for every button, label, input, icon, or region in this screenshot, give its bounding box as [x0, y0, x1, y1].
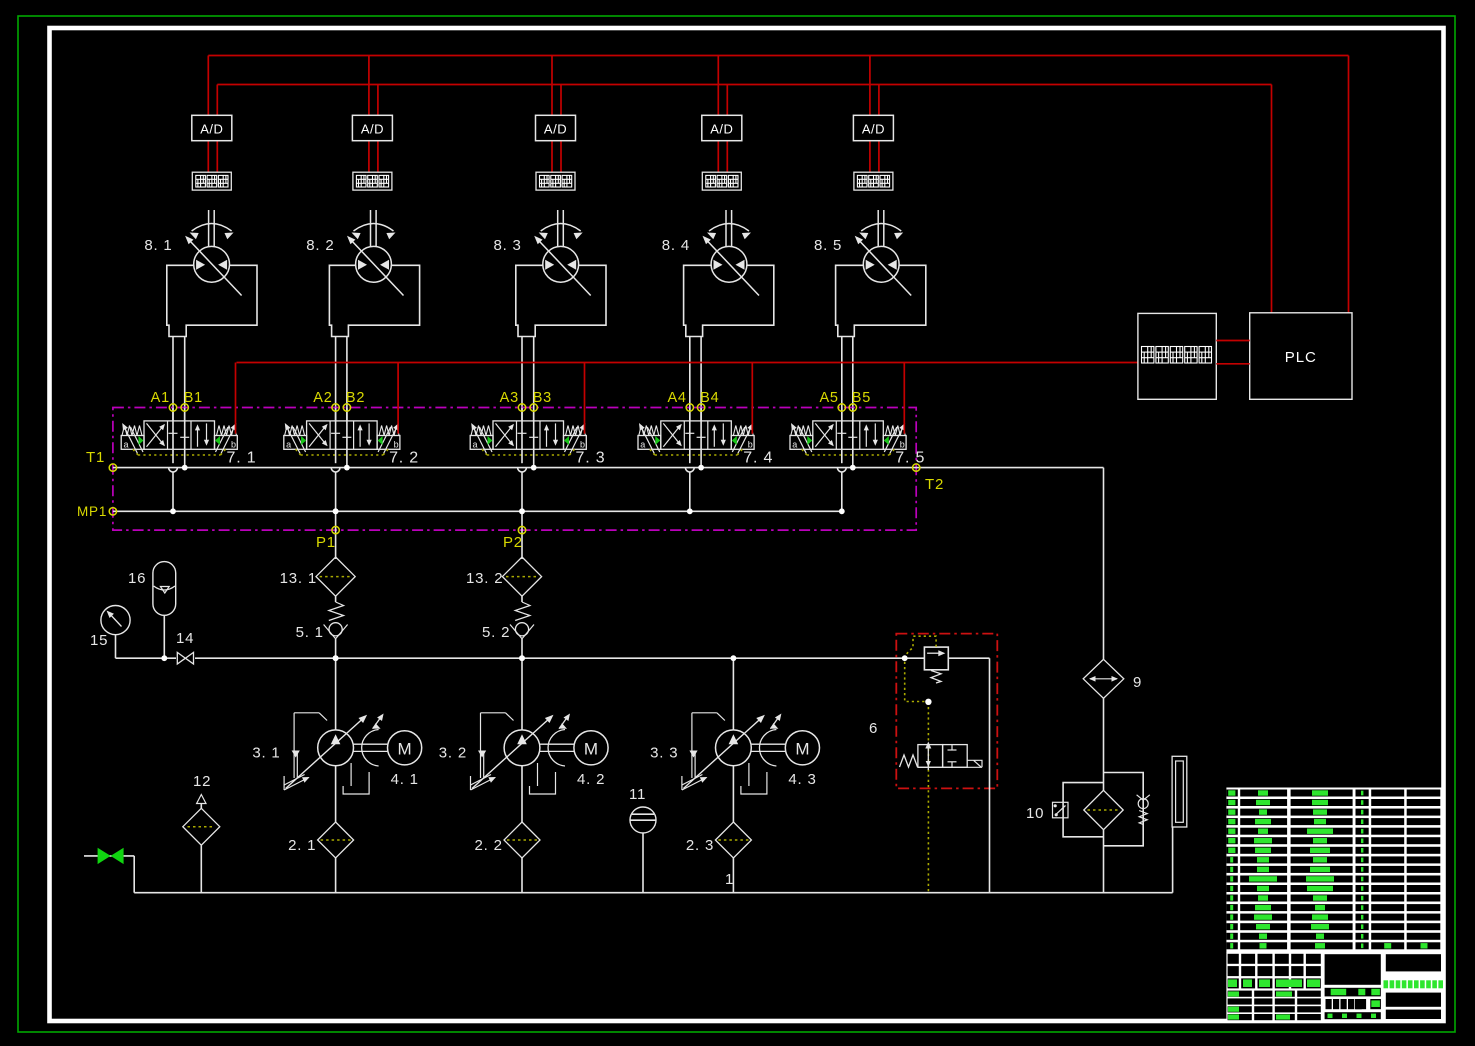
air filter 12	[183, 773, 220, 893]
svg-text:15: 15	[90, 632, 108, 649]
svg-text:MP1: MP1	[77, 504, 107, 519]
wire: T2 line to cooler	[853, 468, 1104, 660]
return filter 10 with bypass	[1026, 698, 1150, 892]
svg-text:16: 16	[128, 570, 146, 587]
junction: pilot tap	[902, 655, 908, 661]
proportional valve 7.1	[121, 421, 256, 467]
wire: valve 7.5 P drop to MP1	[837, 449, 846, 514]
node B3	[530, 390, 552, 421]
svg-text:8. 5: 8. 5	[814, 237, 842, 254]
wire: supply to relief and down-leg	[989, 658, 991, 893]
electric motor 4.1	[354, 714, 422, 789]
svg-text:b: b	[394, 439, 399, 449]
svg-text:A/D: A/D	[361, 122, 384, 137]
svg-text:12: 12	[193, 773, 211, 790]
svg-text:4. 2: 4. 2	[577, 771, 605, 788]
wire: valve 7.5 T drop / junction	[850, 465, 856, 471]
svg-text:A/D: A/D	[200, 122, 223, 137]
variable pump 3.1	[252, 713, 367, 790]
svg-text:2. 1: 2. 1	[288, 837, 316, 854]
relief/unloading block 6 enclosure	[896, 634, 997, 789]
wire: motor 8.4 port lines	[690, 337, 701, 468]
wire: red drive line valve 7.3	[584, 363, 586, 434]
A/D converter 4	[702, 115, 742, 140]
sensor box 1 (传感器)	[192, 172, 231, 190]
svg-text:M: M	[584, 740, 598, 759]
hydraulic motor 8.1	[144, 210, 257, 337]
A/D converter 3	[536, 115, 576, 140]
sensor box 3 (传感器)	[536, 172, 575, 190]
hydraulic motor 8.3	[493, 210, 606, 337]
svg-text:A2: A2	[313, 390, 332, 406]
svg-text:7. 4: 7. 4	[743, 450, 773, 467]
node T2	[913, 464, 945, 493]
svg-text:A/D: A/D	[710, 122, 733, 137]
hydraulic motor 8.5	[814, 210, 926, 337]
svg-text:10: 10	[1026, 805, 1044, 822]
svg-text:A/D: A/D	[862, 122, 885, 137]
wire: pump 3.2 pressure line	[519, 655, 525, 730]
svg-text:B2: B2	[346, 390, 365, 406]
wire: T1 rail	[113, 467, 853, 469]
electric motor 4.3	[751, 714, 819, 789]
wire: sensor 2 signal drops	[369, 56, 378, 173]
pump 3.1 case drain	[343, 763, 369, 794]
node A1	[151, 390, 177, 449]
sensor box 5 (传感器)	[854, 172, 893, 190]
A/D converter 2	[352, 115, 392, 140]
pump 3.2 case drain	[530, 763, 556, 794]
svg-text:14: 14	[176, 630, 194, 647]
svg-text:13. 1: 13. 1	[280, 570, 317, 587]
svg-text:M: M	[795, 740, 809, 759]
svg-text:4. 3: 4. 3	[788, 771, 816, 788]
svg-text:13. 2: 13. 2	[466, 570, 503, 587]
wire: motor 8.2 port lines	[336, 337, 347, 468]
wire: valve 7.2 P drop to MP1	[331, 449, 340, 514]
wire: valve 7.3 T drop / junction	[531, 465, 537, 471]
oil tank	[1172, 756, 1187, 892]
filter 13.1	[280, 557, 356, 596]
svg-text:3. 1: 3. 1	[252, 745, 280, 762]
svg-text:b: b	[231, 439, 236, 449]
wire: motor 8.1 port lines	[173, 337, 185, 468]
svg-text:A3: A3	[500, 390, 519, 406]
wire: sensor 5 signal drops	[870, 56, 879, 173]
wire: sensor 3 signal drops	[552, 56, 561, 173]
wire: red drive line valve 7.4	[751, 363, 753, 434]
hydraulic motor 8.4	[662, 210, 774, 337]
svg-text:b: b	[580, 439, 585, 449]
title block lower section	[1226, 952, 1443, 1021]
svg-text:b: b	[900, 439, 905, 449]
check valve 5.2	[482, 596, 534, 661]
svg-text:A1: A1	[151, 390, 170, 406]
wire: pilot supply line	[116, 655, 990, 661]
node T1	[86, 449, 117, 471]
svg-text:a: a	[473, 439, 478, 449]
pilot relief valve	[869, 647, 948, 737]
svg-text:T1: T1	[86, 449, 105, 466]
svg-text:2. 2: 2. 2	[475, 837, 503, 854]
svg-text:P2: P2	[503, 534, 523, 551]
svg-text:PLC: PLC	[1285, 349, 1317, 366]
proportional valve 7.5	[790, 421, 925, 467]
svg-text:a: a	[640, 439, 645, 449]
node P2	[503, 508, 526, 559]
wire: pump 3.1 pressure line	[333, 655, 339, 730]
svg-text:5. 1: 5. 1	[296, 624, 324, 641]
A/D converter 5	[853, 115, 893, 140]
svg-text:6: 6	[869, 720, 878, 737]
wire: pump 3.3 pressure line	[731, 655, 737, 730]
wire: sensor 1 signal drops	[208, 56, 217, 173]
node B5	[849, 390, 871, 421]
svg-text:4. 1: 4. 1	[391, 771, 419, 788]
proportional valve 7.2	[284, 421, 419, 467]
wire: red drive line valve 7.2	[397, 363, 399, 434]
svg-text:7. 1: 7. 1	[227, 450, 257, 467]
svg-text:a: a	[792, 439, 797, 449]
svg-text:A/D: A/D	[544, 122, 567, 137]
svg-text:7. 2: 7. 2	[389, 450, 419, 467]
node B2	[343, 390, 365, 421]
wire: motor 8.3 port lines	[522, 337, 534, 468]
wire: red signal bus 2	[217, 85, 1271, 313]
accumulator 16	[128, 562, 176, 659]
wire: red drive line valve 7.5	[903, 363, 905, 434]
unloading solenoid valve	[900, 742, 983, 771]
wire: valve 7.1 T drop / junction	[182, 465, 188, 471]
suction filter 2.3	[686, 766, 752, 893]
svg-text:1: 1	[725, 871, 734, 888]
level gauge 11	[629, 786, 656, 893]
svg-text:3. 3: 3. 3	[650, 745, 678, 762]
wire: valve 7.4 P drop to MP1	[685, 449, 694, 514]
svg-text:3. 2: 3. 2	[439, 745, 467, 762]
svg-text:7. 5: 7. 5	[895, 450, 925, 467]
svg-text:A4: A4	[667, 390, 686, 406]
svg-text:B4: B4	[700, 390, 719, 406]
wire: amplifier-PLC links (red)	[1216, 341, 1249, 364]
svg-text:8. 4: 8. 4	[662, 237, 690, 254]
svg-text:8. 1: 8. 1	[144, 237, 172, 254]
variable pump 3.2	[439, 713, 554, 790]
wire: red solenoid command line	[237, 362, 1138, 364]
pilot lines (dotted) of block 6	[905, 636, 936, 893]
sensor box 2 (传感器)	[353, 172, 392, 190]
title block parts list	[1226, 788, 1443, 953]
shut-off valve 14	[176, 630, 195, 665]
svg-text:M: M	[398, 740, 412, 759]
A/D converter 1	[192, 115, 232, 140]
node A2	[313, 390, 339, 449]
svg-text:T2: T2	[925, 476, 944, 493]
svg-text:P1: P1	[316, 534, 336, 551]
sensor box 4 (传感器)	[702, 172, 741, 190]
wire: valve 7.4 T drop / junction	[698, 465, 704, 471]
hydraulic motor 8.2	[306, 210, 419, 337]
svg-text:B3: B3	[533, 390, 552, 406]
svg-text:B5: B5	[852, 390, 871, 406]
svg-text:8. 3: 8. 3	[493, 237, 521, 254]
drain shut-off valve (green)	[84, 848, 134, 893]
wire: sensor 4 signal drops	[718, 56, 727, 173]
svg-text:a: a	[124, 439, 129, 449]
node A4	[667, 390, 693, 449]
wire: tank return rail 1	[134, 871, 1172, 893]
wire: valve 7.1 P drop to MP1	[169, 449, 178, 514]
node A5	[819, 390, 845, 449]
suction filter 2.1	[288, 766, 354, 893]
variable pump 3.3	[650, 713, 765, 790]
PLC controller	[1250, 313, 1352, 400]
check valve 5.1	[296, 596, 348, 661]
manifold enclosure (dash-dot)	[113, 408, 916, 531]
node P1	[316, 508, 339, 559]
svg-text:2. 3: 2. 3	[686, 837, 714, 854]
svg-text:8. 2: 8. 2	[306, 237, 334, 254]
wire: MP1 rail	[113, 510, 842, 512]
electric motor 4.2	[540, 714, 608, 789]
pump 3.3 case drain	[741, 763, 767, 794]
suction filter 2.2	[475, 766, 541, 893]
svg-text:9: 9	[1133, 674, 1142, 691]
wire: red drive line valve 7.1	[235, 363, 237, 434]
pressure gauge 15	[90, 606, 130, 659]
proportional valve 7.3	[470, 421, 605, 467]
cooler 9	[1083, 659, 1142, 698]
svg-text:B1: B1	[184, 390, 203, 406]
svg-text:A5: A5	[819, 390, 838, 406]
proportional amplifier (比例放大器)	[1138, 313, 1216, 399]
wire: valve 7.3 P drop to MP1	[518, 449, 527, 514]
proportional valve 7.4	[638, 421, 773, 467]
node B1	[181, 390, 203, 421]
wire: motor 8.5 port lines	[842, 337, 853, 468]
filter 13.2	[466, 557, 542, 596]
node B4	[697, 390, 719, 421]
svg-text:a: a	[286, 439, 291, 449]
svg-text:11: 11	[629, 786, 646, 803]
wire: red signal bus 1 (top)	[208, 56, 1348, 313]
svg-text:b: b	[748, 439, 753, 449]
svg-text:5. 2: 5. 2	[482, 624, 510, 641]
svg-text:7. 3: 7. 3	[576, 450, 606, 467]
wire: valve 7.2 T drop / junction	[344, 465, 350, 471]
node MP1	[77, 504, 117, 519]
node A3	[500, 390, 526, 449]
